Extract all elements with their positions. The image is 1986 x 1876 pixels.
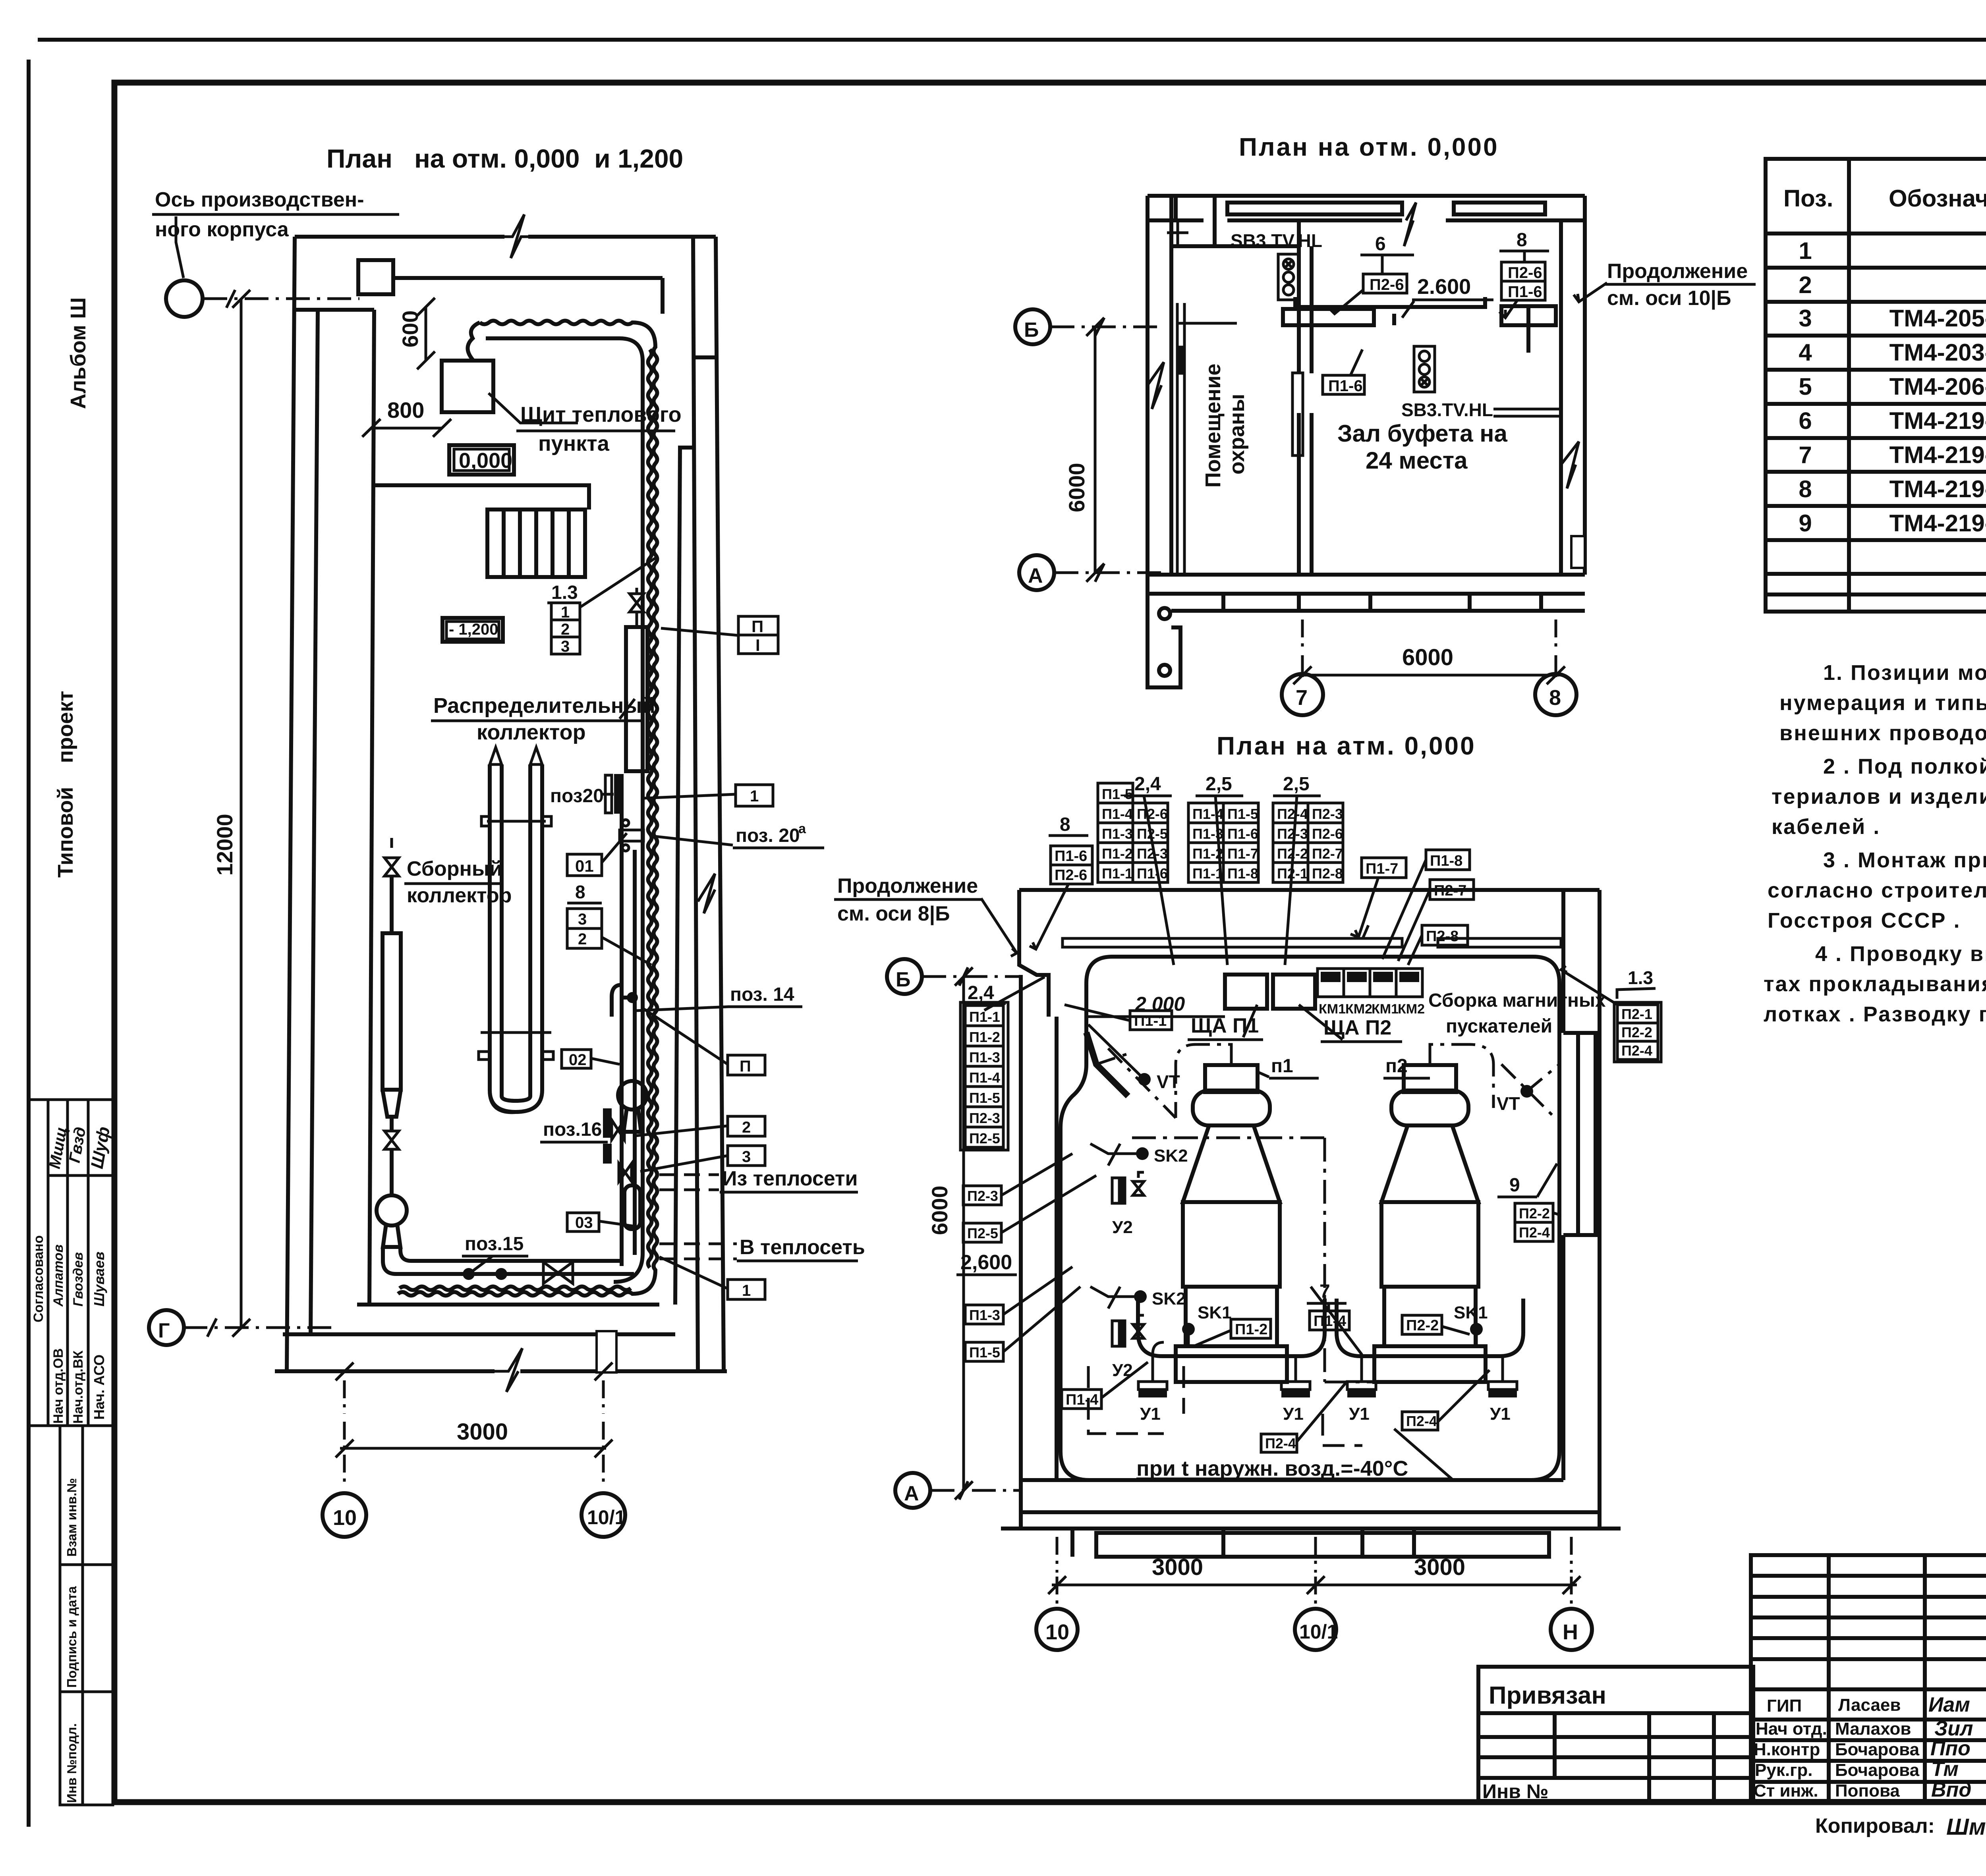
left cable column boxes xyxy=(965,1006,1003,1026)
vertical dim 6000 plan3 xyxy=(962,977,965,1490)
axis А circle and line xyxy=(1019,555,1054,590)
svg-text:2,600: 2,600 xyxy=(960,1251,1012,1274)
svg-text:коллектор: коллектор xyxy=(477,720,586,744)
svg-text:Взам инв.№: Взам инв.№ xyxy=(64,1478,79,1557)
svg-text:9: 9 xyxy=(1799,510,1812,537)
SK2 sensors xyxy=(1136,1147,1149,1160)
svg-text:Шуваев: Шуваев xyxy=(91,1252,107,1307)
svg-text:Бочарова: Бочарова xyxy=(1835,1740,1920,1759)
-1,200 level box xyxy=(442,618,503,642)
svg-text:8: 8 xyxy=(1549,686,1561,710)
svg-text:П2-5: П2-5 xyxy=(967,1225,998,1241)
svg-text:П1-6: П1-6 xyxy=(1508,283,1542,301)
svg-text:П2-1: П2-1 xyxy=(1621,1006,1652,1022)
magnetic starters xyxy=(1318,969,1422,997)
svg-text:Н: Н xyxy=(1563,1620,1578,1644)
boilers xyxy=(1205,1065,1258,1092)
svg-text:П2-4: П2-4 xyxy=(1519,1224,1550,1241)
svg-text:П1-2: П1-2 xyxy=(1102,845,1133,862)
svg-text:п2: п2 xyxy=(1385,1056,1408,1077)
svg-text:2.600: 2.600 xyxy=(1417,275,1471,299)
SK1 sensors bottom xyxy=(1182,1323,1195,1336)
inner rounded room line xyxy=(1061,957,1559,1480)
svg-text:1: 1 xyxy=(742,1282,751,1299)
axis dash-dot line xyxy=(203,297,359,300)
pipe line from square to right xyxy=(393,276,663,280)
svg-text:Инв №подл.: Инв №подл. xyxy=(64,1723,79,1803)
break right wall xyxy=(1561,442,1579,488)
svg-text:нумерация и типы кабелей с: нумерация и типы кабелей соответствуютсх… xyxy=(1779,691,1986,715)
ЩА П1 и ЩА П2 panels xyxy=(1225,975,1267,1009)
boiler foundation plinths xyxy=(1138,1299,1325,1356)
svg-text:2,4: 2,4 xyxy=(1134,774,1161,795)
vertical cable line left xyxy=(1055,1017,1059,1438)
axis А circle xyxy=(895,1473,930,1508)
П1-4 box bottom left xyxy=(1062,1390,1101,1409)
bottom room line xyxy=(357,1303,659,1307)
buffet counter xyxy=(1283,297,1556,353)
svg-text:П2-4: П2-4 xyxy=(1406,1413,1437,1429)
svg-text:02: 02 xyxy=(569,1051,587,1069)
svg-text:кабелей .: кабелей . xyxy=(1772,815,1880,839)
svg-text:Ст инж.: Ст инж. xyxy=(1754,1781,1818,1801)
svg-text:П1-1: П1-1 xyxy=(969,1009,1000,1025)
svg-text:Б: Б xyxy=(896,968,910,991)
bottom band panels xyxy=(1072,1529,1549,1557)
small flange with circles xyxy=(620,820,643,851)
svg-text:SB3.TV.HL: SB3.TV.HL xyxy=(1231,230,1322,251)
boxes right: П, 2, 3, 1, 03 xyxy=(728,1055,765,1075)
dim 600 vertical xyxy=(425,307,427,361)
svg-text:П1-5: П1-5 xyxy=(1102,786,1133,802)
U-pipes middle xyxy=(490,764,542,1112)
svg-text:12000: 12000 xyxy=(212,814,237,876)
axis Г dash-dot xyxy=(184,1326,332,1329)
svg-text:П1-1: П1-1 xyxy=(1192,865,1223,882)
svg-text:Тм: Тм xyxy=(1931,1758,1959,1781)
svg-text:10/1: 10/1 xyxy=(587,1506,626,1529)
svg-text:П2-6: П2-6 xyxy=(1312,826,1343,842)
svg-text:см. оси 8|Б: см. оси 8|Б xyxy=(837,902,950,925)
axis circles 10 10/1 Н xyxy=(1036,1609,1078,1650)
wavy insulation outer xyxy=(398,321,657,1296)
svg-text:ТМ4-219-75: ТМ4-219-75 xyxy=(1889,510,1986,537)
svg-text:А: А xyxy=(1028,564,1043,587)
svg-text:П1-3: П1-3 xyxy=(969,1307,1000,1323)
svg-text:800: 800 xyxy=(387,398,424,423)
svg-text:П2-3: П2-3 xyxy=(1277,826,1308,842)
svg-text:П2-6: П2-6 xyxy=(1508,264,1542,282)
svg-text:7: 7 xyxy=(1799,442,1812,468)
svg-text:2: 2 xyxy=(1799,272,1812,298)
dim 12000 vertical xyxy=(240,299,243,1328)
svg-text:У1: У1 xyxy=(1140,1404,1161,1424)
svg-text:П2-3: П2-3 xyxy=(969,1110,1000,1126)
svg-text:П1-8: П1-8 xyxy=(1430,853,1462,869)
svg-text:Гвоздев: Гвоздев xyxy=(71,1252,86,1307)
svg-text:7: 7 xyxy=(1296,686,1308,710)
svg-text:ТМ4-219-75: ТМ4-219-75 xyxy=(1889,476,1986,502)
svg-text:пункта: пункта xyxy=(538,432,610,455)
svg-text:Нач. АСО: Нач. АСО xyxy=(91,1355,107,1420)
svg-text:Шуф: Шуф xyxy=(87,1125,114,1170)
vertical dim 6000 xyxy=(1094,327,1097,573)
sidebar upper table xyxy=(29,1100,113,1426)
axis Б circle xyxy=(887,959,922,994)
svg-text:6000: 6000 xyxy=(927,1185,952,1235)
right wall xyxy=(1598,890,1602,1529)
light fixture band xyxy=(1063,938,1402,947)
svg-text:У1: У1 xyxy=(1490,1404,1511,1424)
svg-text:П: П xyxy=(752,617,763,636)
svg-text:поз.15: поз.15 xyxy=(465,1233,524,1255)
svg-text:П: П xyxy=(740,1058,751,1075)
svg-text:охраны: охраны xyxy=(1225,394,1249,475)
svg-text:Попова: Попова xyxy=(1835,1781,1900,1801)
svg-text:Поз.: Поз. xyxy=(1783,185,1833,212)
svg-text:Малахов: Малахов xyxy=(1835,1719,1911,1739)
svg-text:Помещение: Помещение xyxy=(1201,363,1225,488)
svg-text:лотках . Разводку проводок: лотках . Разводку проводок уточнить при … xyxy=(1764,1002,1986,1026)
svg-text:П2-3: П2-3 xyxy=(967,1188,998,1204)
svg-text:П1-6: П1-6 xyxy=(1137,865,1168,882)
svg-text:Привязан: Привязан xyxy=(1489,1682,1606,1709)
break symbol top wall xyxy=(504,214,528,258)
svg-text:3 . Монтаж приборов и сред: 3 . Монтаж приборов и средств автоматиза… xyxy=(1823,848,1986,872)
svg-text:Альбом Ш: Альбом Ш xyxy=(66,297,90,409)
svg-text:1.3: 1.3 xyxy=(551,582,578,603)
interior partition vertical xyxy=(369,310,374,1305)
01 box and cable boxes 8/3/2 xyxy=(567,854,602,876)
bottom dim line with break xyxy=(493,1348,522,1392)
svg-text:600: 600 xyxy=(398,311,423,347)
svg-text:1: 1 xyxy=(750,787,759,805)
svg-text:3: 3 xyxy=(561,638,570,655)
svg-text:Б: Б xyxy=(1024,318,1039,342)
svg-text:П1-6: П1-6 xyxy=(1227,826,1258,842)
svg-text:Н.контр: Н.контр xyxy=(1754,1740,1820,1759)
building top wall xyxy=(295,235,504,239)
svg-text:коллектор: коллектор xyxy=(407,884,512,907)
cable drops to У1 xyxy=(1153,1287,1503,1382)
svg-text:ТМ4-206-75: ТМ4-206-75 xyxy=(1889,373,1986,400)
svg-text:0,000: 0,000 xyxy=(459,449,512,473)
collector vessel xyxy=(626,627,647,771)
svg-text:П1-5: П1-5 xyxy=(969,1344,1000,1361)
P1-6 box middle xyxy=(1323,375,1364,394)
svg-text:КМ1: КМ1 xyxy=(1372,1002,1399,1017)
building left wall outer xyxy=(287,237,295,1371)
svg-text:П1-4: П1-4 xyxy=(1102,806,1133,822)
svg-text:п1: п1 xyxy=(1271,1056,1293,1077)
svg-text:П2-8: П2-8 xyxy=(1312,865,1343,882)
svg-text:Продолжение: Продолжение xyxy=(837,874,978,897)
svg-text:У1: У1 xyxy=(1283,1404,1304,1424)
svg-text:П1-4: П1-4 xyxy=(1066,1392,1098,1408)
svg-text:П2-3: П2-3 xyxy=(1312,806,1343,822)
svg-text:4 . Проводку выполнить по: 4 . Проводку выполнить по стенам на высо… xyxy=(1815,942,1986,966)
svg-text:Нач.отд.ВК: Нач.отд.ВК xyxy=(71,1350,86,1424)
svg-text:П1-8: П1-8 xyxy=(1227,865,1258,882)
svg-text:ТМ4-203-75: ТМ4-203-75 xyxy=(1889,339,1986,366)
dash-dot boiler axes xyxy=(1132,1137,1325,1139)
svg-text:Нач отд.: Нач отд. xyxy=(1756,1719,1827,1739)
boxes П1-7 П1-8 П2-7 П2-8 xyxy=(1362,858,1406,878)
svg-text:2,5: 2,5 xyxy=(1283,774,1310,795)
svg-text:П1-1: П1-1 xyxy=(1102,865,1133,882)
svg-text:- 1,200: - 1,200 xyxy=(449,621,498,638)
partition центр xyxy=(1171,220,1312,575)
svg-text:пускателей: пускателей xyxy=(1446,1016,1552,1037)
L-shape bottom left with circles xyxy=(1148,575,1180,687)
П2-3 П2-5 boxes lower xyxy=(963,1186,1001,1205)
svg-text:П1-7: П1-7 xyxy=(1227,845,1258,862)
svg-text:3000: 3000 xyxy=(457,1419,508,1445)
svg-text:6: 6 xyxy=(1799,407,1812,434)
svg-text:Сборка магнитных: Сборка магнитных xyxy=(1428,990,1606,1011)
svg-text:П2-6: П2-6 xyxy=(1055,867,1087,884)
svg-text:Ось производствен-: Ось производствен- xyxy=(155,188,364,211)
white door in right wall bottom xyxy=(1571,536,1585,568)
stairs xyxy=(487,510,585,577)
svg-text:Согласовано: Согласовано xyxy=(31,1235,46,1323)
axis circles 7 and 8 xyxy=(1282,674,1323,715)
svg-text:2,5: 2,5 xyxy=(1206,774,1232,795)
svg-text:П1-1: П1-1 xyxy=(1134,1013,1167,1029)
svg-text:П1-6: П1-6 xyxy=(1328,377,1363,395)
02 box xyxy=(562,1050,591,1068)
svg-text:3: 3 xyxy=(742,1148,751,1166)
svg-text:П1-7: П1-7 xyxy=(1366,861,1398,877)
svg-text:10/1: 10/1 xyxy=(1299,1621,1338,1643)
svg-text:01: 01 xyxy=(575,857,594,875)
balcony line xyxy=(373,485,589,510)
svg-text:П1-4: П1-4 xyxy=(1192,806,1223,822)
narrow shaft right xyxy=(675,448,693,1305)
VT left xyxy=(1138,1073,1151,1086)
left collector vessel with valve xyxy=(384,838,399,876)
box 1 right xyxy=(736,785,773,806)
svg-text:П2-2: П2-2 xyxy=(1621,1024,1652,1040)
svg-text:ЩА П2: ЩА П2 xyxy=(1323,1016,1391,1039)
svg-text:П1-3: П1-3 xyxy=(969,1049,1000,1065)
wavy insulation right second xyxy=(648,349,652,1268)
П2-4 boxes xyxy=(1261,1434,1297,1452)
partition door xyxy=(1294,373,1315,413)
svg-text:Шмит: Шмит xyxy=(1946,1814,1986,1840)
svg-text:2: 2 xyxy=(561,621,570,638)
break on top wall xyxy=(1404,203,1416,246)
valve on top of collector xyxy=(630,588,644,627)
svg-text:поз. 20: поз. 20 xyxy=(736,825,800,846)
dim 6000 horizontal bottom xyxy=(1301,620,1304,651)
svg-text:1: 1 xyxy=(561,604,570,621)
inner smooth pipe line xyxy=(486,338,643,1282)
svg-text:А: А xyxy=(904,1482,919,1505)
svg-text:8: 8 xyxy=(1060,814,1070,835)
bottom band xyxy=(1171,594,1585,611)
break left wall xyxy=(1148,362,1164,409)
svg-text:П2-5: П2-5 xyxy=(969,1130,1000,1146)
outer top line xyxy=(38,38,1986,42)
svg-text:8: 8 xyxy=(575,882,585,902)
room top wall xyxy=(1019,888,1600,892)
svg-text:П2-4: П2-4 xyxy=(1265,1435,1296,1451)
svg-text:КМ1: КМ1 xyxy=(1319,1002,1346,1017)
right wall xyxy=(1561,196,1585,575)
svg-text:П2-4: П2-4 xyxy=(1621,1042,1652,1059)
svg-text:У1: У1 xyxy=(1349,1404,1370,1424)
П1-3 П1-5 boxes xyxy=(965,1305,1003,1324)
bottom walls xyxy=(283,1332,675,1336)
svg-text:Зал буфета на: Зал буфета на xyxy=(1337,420,1508,447)
П1-1 box xyxy=(1130,1011,1172,1030)
svg-text:10: 10 xyxy=(333,1506,357,1530)
pump circle on pipe xyxy=(618,1081,647,1110)
svg-text:Ппо: Ппо xyxy=(1930,1737,1971,1760)
svg-text:а: а xyxy=(798,821,806,836)
svg-text:П2-4: П2-4 xyxy=(1277,806,1308,822)
second fixture xyxy=(1414,346,1435,392)
svg-text:Госстроя СССР .: Госстроя СССР . xyxy=(1768,909,1961,932)
left wall xyxy=(1019,975,1023,1529)
VT right xyxy=(1520,1085,1533,1098)
dim tick xyxy=(226,290,235,308)
svg-text:9: 9 xyxy=(1509,1175,1520,1196)
bottom wall xyxy=(1021,1478,1563,1482)
valve on bottom pipe xyxy=(543,1262,573,1283)
top interior wall line xyxy=(295,308,374,312)
svg-text:03: 03 xyxy=(575,1214,593,1231)
boxes П and Т right xyxy=(738,616,778,654)
building left wall inner xyxy=(311,310,318,1334)
svg-text:Ласаев: Ласаев xyxy=(1838,1695,1901,1715)
svg-text:Подпись и дата: Подпись и дата xyxy=(64,1586,79,1688)
svg-text:П2-2: П2-2 xyxy=(1519,1205,1550,1222)
svg-text:тах прокладывания трех ка: тах прокладывания трех кабелей и более п… xyxy=(1764,972,1986,996)
svg-text:П1-4: П1-4 xyxy=(969,1069,1000,1086)
svg-text:Продолжение: Продолжение xyxy=(1607,260,1748,283)
privyazan table xyxy=(1478,1667,1753,1801)
building right wall inner xyxy=(693,237,698,1371)
riser in okhrana room xyxy=(1177,303,1237,573)
svg-text:8: 8 xyxy=(1799,476,1812,502)
svg-text:П2-2: П2-2 xyxy=(1406,1317,1439,1334)
svg-text:2,4: 2,4 xyxy=(968,982,994,1004)
svg-text:П1-5: П1-5 xyxy=(969,1090,1000,1106)
svg-text:поз.16: поз.16 xyxy=(543,1119,602,1140)
svg-text:2 . Под полкой линии - вынос: 2 . Под полкой линии - выноски позиций м… xyxy=(1823,755,1986,778)
svg-text:1: 1 xyxy=(1799,237,1812,264)
svg-text:Алпатов: Алпатов xyxy=(51,1245,66,1307)
svg-text:внешних проводок см .АП-6: внешних проводок см .АП-6 , АП-9 . xyxy=(1779,721,1986,745)
svg-text:В теплосеть: В теплосеть xyxy=(740,1236,865,1259)
svg-text:Из теплосети: Из теплосети xyxy=(722,1167,858,1190)
T column marker xyxy=(1177,220,1179,248)
top-right step xyxy=(693,355,716,359)
svg-text:Нач отд.ОВ: Нач отд.ОВ xyxy=(51,1348,66,1424)
top wall xyxy=(1148,196,1585,246)
svg-text:Обозначение: Обозначение xyxy=(1889,185,1986,212)
wavy connector to panel xyxy=(468,322,480,361)
axis circles 10 and 10/1 xyxy=(323,1493,366,1537)
svg-text:Инв №: Инв № xyxy=(1482,1780,1549,1803)
svg-text:6000: 6000 xyxy=(1402,645,1453,670)
svg-text:согласно строительным норма: согласно строительным нормам и правилам … xyxy=(1768,878,1986,902)
svg-text:П1-5: П1-5 xyxy=(1227,806,1258,822)
svg-text:поз20: поз20 xyxy=(550,786,604,807)
У2 symbols xyxy=(1112,1172,1144,1203)
svg-text:3: 3 xyxy=(578,911,587,928)
outer left line xyxy=(27,60,31,1827)
svg-text:1. Позиции монтируемых прибор: 1. Позиции монтируемых приборов и аппара… xyxy=(1823,661,1986,685)
dim 3000 xyxy=(343,1380,346,1414)
svg-text:при t наружн. возд.=-40°C: при t наружн. возд.=-40°C xyxy=(1136,1457,1408,1480)
svg-text:П1-2: П1-2 xyxy=(1235,1321,1267,1338)
svg-text:П1-2: П1-2 xyxy=(969,1029,1000,1045)
pipe down from collector xyxy=(620,814,624,1266)
svg-text:поз. 14: поз. 14 xyxy=(730,984,794,1005)
svg-text:I: I xyxy=(755,636,760,654)
У1 units bottom xyxy=(1138,1382,1517,1424)
svg-text:П2-8: П2-8 xyxy=(1426,928,1459,945)
small vessel right xyxy=(624,1185,640,1229)
dim 800 xyxy=(372,427,442,430)
svg-text:4: 4 xyxy=(1799,339,1812,366)
svg-text:8: 8 xyxy=(1517,230,1527,251)
svg-text:П2-7: П2-7 xyxy=(1312,845,1343,862)
heat panel (Shchit teplovogo punkta) xyxy=(442,361,493,412)
svg-text:Иам: Иам xyxy=(1928,1693,1970,1716)
svg-text:6000: 6000 xyxy=(1064,463,1089,512)
svg-text:SK2: SK2 xyxy=(1154,1146,1188,1166)
svg-text:3: 3 xyxy=(1799,305,1812,332)
svg-text:SK1: SK1 xyxy=(1454,1303,1488,1322)
top-left notch xyxy=(1019,890,1049,1017)
thick cable from П1-1 down xyxy=(1086,1033,1128,1096)
svg-text:6: 6 xyxy=(1375,234,1386,255)
svg-text:2: 2 xyxy=(742,1119,751,1136)
svg-text:2: 2 xyxy=(578,930,587,948)
axis circle Г xyxy=(149,1310,184,1345)
axis circle (top-left, empty) xyxy=(166,280,203,317)
axis Б circle and line xyxy=(1015,309,1050,344)
svg-text:План на отм. 0,000: План на отм. 0,000 xyxy=(1239,133,1499,161)
svg-text:П2-6: П2-6 xyxy=(1370,276,1404,293)
door/window right xyxy=(1563,1031,1600,1035)
left wall xyxy=(1148,196,1171,575)
0,000 level box xyxy=(449,445,514,475)
svg-text:Копировал:: Копировал: xyxy=(1815,1814,1935,1837)
leader to axis circle xyxy=(176,216,184,278)
svg-text:План на атм. 0,000: План на атм. 0,000 xyxy=(1217,731,1476,760)
svg-text:Г: Г xyxy=(158,1319,170,1342)
sidebar lower boxes xyxy=(60,1426,113,1805)
svg-text:Типовой проект: Типовой проект xyxy=(54,691,77,878)
door rect bottom xyxy=(597,1331,616,1372)
svg-text:КМ2: КМ2 xyxy=(1398,1002,1425,1017)
svg-text:5: 5 xyxy=(1799,373,1812,400)
svg-text:Рук.гр.: Рук.гр. xyxy=(1755,1760,1813,1780)
svg-text:3000: 3000 xyxy=(1152,1554,1203,1580)
svg-text:24 места: 24 места xyxy=(1366,447,1468,474)
svg-text:П1-3: П1-3 xyxy=(1102,826,1133,842)
column square on axis xyxy=(358,260,393,294)
svg-text:SK2: SK2 xyxy=(1152,1289,1186,1309)
wavy bottom second xyxy=(400,1287,631,1290)
svg-text:П2-6: П2-6 xyxy=(1137,806,1168,822)
svg-text:3000: 3000 xyxy=(1414,1554,1465,1580)
